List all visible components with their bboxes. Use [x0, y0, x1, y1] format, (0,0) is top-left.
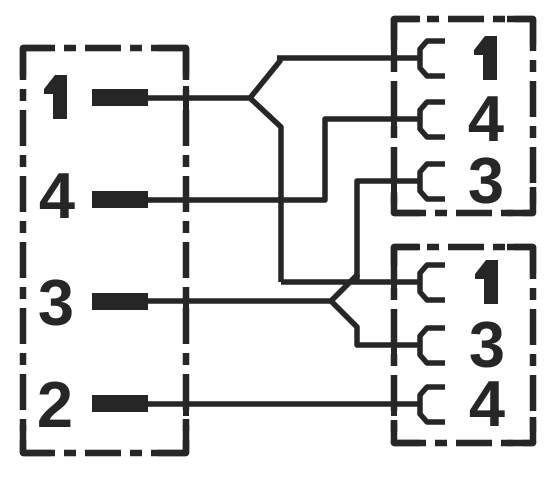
- left border crossing tick at pin3 wire: [183, 289, 189, 313]
- J2 border crossing tick at pin3: [391, 169, 397, 193]
- J1 pin 4 contact bar: [92, 191, 148, 208]
- right bottom connector J3 dash-dot border: [394, 247, 533, 443]
- svg-text:3: 3: [38, 266, 74, 339]
- wire V1 upper branch diagonal to J2 pin1: [250, 58, 280, 98]
- right top connector J2 dash-dot border: [394, 19, 533, 213]
- J3 border crossing tick at pin4: [391, 392, 397, 416]
- svg-text:4: 4: [469, 367, 505, 440]
- J2 border crossing tick at pin1: [391, 46, 397, 70]
- wire V2 lower branch diagonal to J3 pin3: [331, 301, 420, 345]
- svg-text:3: 3: [468, 144, 504, 217]
- svg-text:2: 2: [37, 368, 73, 441]
- wire J1 pin1 to node V1: [146, 95, 250, 101]
- J1 pin 3 contact bar: [92, 293, 148, 310]
- J2 pin number 1: [474, 36, 497, 80]
- left border crossing tick at pin4 wire: [183, 188, 189, 212]
- wire vertical up to J2 pin3: [357, 181, 420, 277]
- J1 pin number 1: [44, 75, 67, 119]
- J2 pin 4 socket contact: [420, 102, 445, 137]
- J3 pin 1 socket contact: [420, 265, 445, 300]
- J3 border crossing tick at pin3: [391, 333, 397, 357]
- J2 pin 1 socket contact: [420, 41, 445, 76]
- J1 pin 2 contact bar: [92, 395, 148, 412]
- J3 border crossing tick at pin1: [391, 270, 397, 294]
- J2 pin 3 socket contact: [420, 164, 445, 199]
- wire J1 pin4 to J2 pin4: [146, 119, 420, 200]
- left border crossing tick at pin1 wire: [183, 86, 189, 110]
- J3 pin number 1: [475, 260, 498, 304]
- wire V2 upper branch diagonal to J2 pin3: [331, 275, 357, 301]
- svg-text:4: 4: [39, 159, 75, 232]
- J1 pin 1 contact bar: [92, 89, 148, 106]
- J2 border crossing tick at pin4: [391, 107, 397, 131]
- wire J1 pin3 to node V2: [146, 298, 331, 304]
- left border crossing tick at pin2 wire: [183, 392, 189, 416]
- left connector J1 dash-dot border: [23, 48, 186, 453]
- wire horizontal to J2 pin1: [277, 55, 420, 61]
- wire V1 lower branch diagonal and vertical down: [250, 98, 281, 282]
- wire J1 pin2 to J3 pin4: [146, 401, 420, 407]
- J3 pin 3 socket contact: [420, 328, 445, 363]
- J3 pin 4 socket contact: [420, 387, 445, 422]
- wire horizontal to J3 pin1: [281, 279, 420, 285]
